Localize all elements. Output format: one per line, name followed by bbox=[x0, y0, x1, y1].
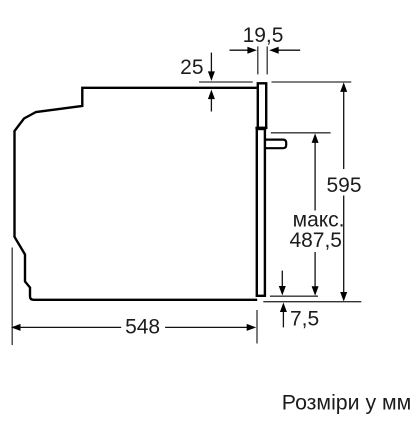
extension line 19,5 left vertical bbox=[257, 46, 259, 74]
label 19,5 bbox=[243, 24, 284, 47]
mounting bracket bbox=[265, 140, 287, 149]
label макс. bbox=[293, 209, 345, 232]
dimension 25 down arrow bbox=[208, 53, 215, 81]
svg-text:25: 25 bbox=[180, 56, 203, 79]
svg-text:595: 595 bbox=[326, 174, 361, 197]
dimension 595 line with arrows bbox=[340, 82, 347, 301]
oven body outline bbox=[15, 88, 258, 300]
front panel lower section bbox=[257, 129, 265, 296]
dimension 487,5 line with arrows bbox=[312, 133, 319, 295]
label 548 bbox=[125, 315, 160, 338]
svg-text:Розміри у мм: Розміри у мм bbox=[282, 391, 412, 415]
extension line 548 right vertical bbox=[256, 310, 258, 344]
dimension 19,5 right arrow bbox=[269, 47, 300, 54]
label 25 bbox=[180, 56, 203, 79]
dimension 548 line with arrows bbox=[11, 324, 256, 331]
dimension 19,5 left arrow bbox=[230, 47, 257, 54]
svg-text:487,5: 487,5 bbox=[289, 229, 342, 252]
label 487,5 bbox=[289, 229, 342, 252]
dimension 25 up arrow bbox=[208, 90, 215, 112]
svg-text:19,5: 19,5 bbox=[243, 24, 284, 47]
extension line 548 left vertical bbox=[11, 248, 13, 346]
extension line top reference right segment bbox=[272, 81, 352, 83]
label 7,5 bbox=[290, 308, 319, 331]
label 595 bbox=[326, 174, 361, 197]
extension line body bottom reference bbox=[263, 301, 361, 303]
front panel upper section bbox=[255, 83, 267, 128]
dimension 7,5 up arrow bbox=[280, 303, 287, 328]
extension line 19,5 right vertical bbox=[266, 46, 268, 74]
extension line 487,5 top reference bbox=[271, 132, 331, 134]
caption Розміри у мм bbox=[282, 391, 412, 415]
dimension 7,5 down arrow bbox=[279, 271, 286, 296]
extension line top reference left segment bbox=[199, 81, 253, 83]
svg-text:7,5: 7,5 bbox=[290, 308, 319, 331]
svg-text:548: 548 bbox=[125, 315, 160, 338]
extension line panel bottom reference bbox=[270, 295, 318, 297]
